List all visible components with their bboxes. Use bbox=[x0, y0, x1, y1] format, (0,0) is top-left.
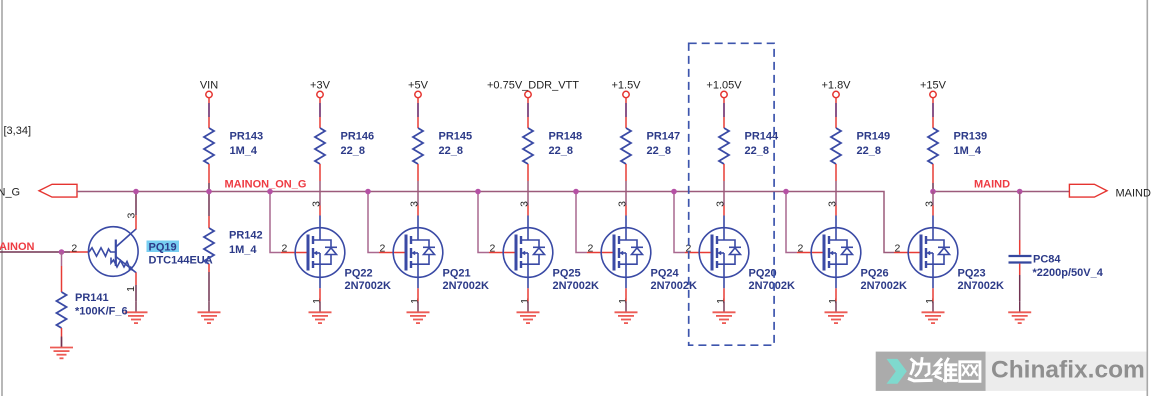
node MAINON / PR141 junction bbox=[59, 249, 65, 255]
svg-text:22_8: 22_8 bbox=[745, 145, 769, 157]
svg-text:PR147: PR147 bbox=[647, 130, 681, 142]
ground PC84 bbox=[1008, 301, 1031, 323]
svg-text:PR141: PR141 bbox=[75, 292, 109, 304]
power port +1.8V bbox=[821, 79, 851, 128]
svg-text:1: 1 bbox=[715, 298, 727, 304]
wire MAIND net bbox=[933, 191, 1069, 193]
svg-text:3: 3 bbox=[519, 201, 531, 207]
svg-text:1: 1 bbox=[409, 298, 421, 304]
svg-text:PQ22: PQ22 bbox=[345, 268, 373, 280]
svg-text:MAIND: MAIND bbox=[1116, 187, 1152, 199]
svg-text:2: 2 bbox=[282, 242, 288, 254]
node PQ19 collector / rail bbox=[133, 189, 139, 195]
svg-text:PQ23: PQ23 bbox=[958, 268, 986, 280]
resistor PR141 *100K/F_6 bbox=[61, 252, 63, 266]
ground PR141 bbox=[50, 337, 73, 359]
wire PQ23 source bbox=[932, 288, 934, 301]
capacitor PC84 *2200p/50V_4 bbox=[1009, 192, 1104, 302]
svg-text:*100K/F_6: *100K/F_6 bbox=[75, 306, 128, 318]
wire PR143 to rail bbox=[208, 164, 210, 192]
svg-text:PR148: PR148 bbox=[549, 130, 583, 142]
wire PQ24 source bbox=[625, 288, 627, 301]
transistor PQ19 DTC144EUA bbox=[89, 227, 139, 277]
svg-text:PQ21: PQ21 bbox=[443, 268, 471, 280]
svg-text:VIN: VIN bbox=[200, 79, 218, 91]
ground PQ19 emitter bbox=[125, 301, 148, 323]
svg-text:PR143: PR143 bbox=[230, 130, 264, 142]
wire PQ21 gate feed bbox=[368, 192, 406, 253]
selection box (dashed) around +1.05V / PQ20 column bbox=[689, 43, 774, 345]
wire PR146 to PQ22 drain (crosses rail) bbox=[319, 164, 321, 216]
svg-text:PR145: PR145 bbox=[439, 130, 473, 142]
power port +15V bbox=[920, 79, 947, 128]
svg-text:2: 2 bbox=[490, 242, 496, 254]
resistor PR145 22_8 bbox=[413, 128, 472, 164]
resistor PR146 22_8 bbox=[315, 128, 374, 164]
ground PQ22 source bbox=[309, 301, 332, 323]
svg-text:PR149: PR149 bbox=[857, 130, 891, 142]
wire PR149 to PQ26 drain (crosses rail) bbox=[835, 164, 837, 216]
node rail / PQ26 gate drop bbox=[783, 189, 789, 195]
svg-text:1: 1 bbox=[125, 286, 137, 292]
svg-text:1M_4: 1M_4 bbox=[954, 145, 982, 157]
transistor PQ23 2N7002K bbox=[895, 201, 1005, 304]
svg-text:2: 2 bbox=[380, 242, 386, 254]
wire PQ22 gate feed bbox=[270, 192, 308, 253]
svg-text:2N7002K: 2N7002K bbox=[958, 280, 1005, 292]
resistor PR147 22_8 bbox=[621, 128, 680, 164]
svg-text:1M_4: 1M_4 bbox=[229, 244, 257, 256]
svg-text:1: 1 bbox=[519, 298, 531, 304]
node MAIND / PR139 / PQ23 drain bbox=[930, 189, 936, 195]
svg-text:3: 3 bbox=[409, 201, 421, 207]
wire PQ26 gate feed bbox=[786, 192, 824, 253]
wire PR139 to MAIND bbox=[932, 164, 934, 192]
svg-text:+1.8V: +1.8V bbox=[821, 79, 851, 91]
svg-text:+15V: +15V bbox=[920, 79, 947, 91]
wire PR148 to PQ25 drain (crosses rail) bbox=[527, 164, 529, 216]
svg-text:Chinafix.com: Chinafix.com bbox=[991, 357, 1145, 384]
ground PQ23 source bbox=[922, 301, 945, 323]
wire PR145 to PQ21 drain (crosses rail) bbox=[417, 164, 419, 216]
svg-text:2N7002K: 2N7002K bbox=[345, 280, 392, 292]
wire PQ20 source bbox=[723, 288, 725, 301]
wire PQ19 collector bbox=[135, 192, 137, 216]
svg-text:1M_4: 1M_4 bbox=[230, 145, 258, 157]
node rail / PQ22 gate drop bbox=[267, 189, 273, 195]
watermark xunwei / Chinafix.com bbox=[876, 352, 1147, 391]
svg-text:3: 3 bbox=[924, 201, 936, 207]
power port +5V bbox=[408, 79, 429, 128]
svg-text:+1.05V: +1.05V bbox=[706, 79, 742, 91]
svg-text:2: 2 bbox=[71, 242, 77, 254]
wire PQ23 drain bbox=[932, 192, 934, 216]
svg-text:+0.75V_DDR_VTT: +0.75V_DDR_VTT bbox=[487, 79, 579, 91]
node rail / PQ25 gate drop bbox=[475, 189, 481, 195]
svg-text:22_8: 22_8 bbox=[549, 145, 573, 157]
svg-text:3: 3 bbox=[311, 201, 323, 207]
wire PR144 to PQ20 drain (crosses rail) bbox=[723, 164, 725, 216]
power port +3V bbox=[310, 79, 331, 128]
wire PQ23 gate feed bbox=[894, 252, 921, 254]
ground PQ21 source bbox=[407, 301, 430, 323]
node MAIND / PC84 bbox=[1017, 189, 1023, 195]
svg-text:2N7002K: 2N7002K bbox=[749, 280, 796, 292]
off-page connector MAIND arrow bbox=[1069, 184, 1107, 197]
svg-text:+1.5V: +1.5V bbox=[611, 79, 641, 91]
svg-text:N_G: N_G bbox=[0, 187, 20, 199]
svg-text:PQ19: PQ19 bbox=[149, 242, 177, 254]
svg-text:PQ26: PQ26 bbox=[861, 268, 889, 280]
svg-text:*2200p/50V_4: *2200p/50V_4 bbox=[1033, 267, 1104, 279]
transistor PQ21 2N7002K bbox=[380, 201, 490, 304]
node rail / PQ20 gate drop bbox=[671, 189, 677, 195]
transistor PQ24 2N7002K bbox=[588, 201, 698, 304]
svg-text:PC84: PC84 bbox=[1033, 254, 1061, 266]
resistor PR149 22_8 bbox=[831, 128, 890, 164]
svg-text:2N7002K: 2N7002K bbox=[861, 280, 908, 292]
resistor PR142 1M_4 bbox=[208, 192, 210, 217]
transistor PQ22 2N7002K bbox=[282, 201, 392, 304]
svg-text:22_8: 22_8 bbox=[857, 145, 881, 157]
wire MAINON_ON_G rail bbox=[77, 192, 894, 253]
power port +1.5V bbox=[611, 79, 641, 128]
wire PQ25 gate feed bbox=[478, 192, 516, 253]
svg-text:MAIND: MAIND bbox=[974, 179, 1010, 191]
resistor PR139 1M_4 bbox=[928, 128, 987, 164]
resistor PR148 22_8 bbox=[523, 128, 582, 164]
svg-text:2N7002K: 2N7002K bbox=[443, 280, 490, 292]
transistor PQ25 2N7002K bbox=[490, 201, 600, 304]
svg-text:3: 3 bbox=[827, 201, 839, 207]
svg-text:22_8: 22_8 bbox=[439, 145, 463, 157]
ground PQ25 source bbox=[517, 301, 540, 323]
svg-text:PR146: PR146 bbox=[341, 130, 375, 142]
power port +1.05V bbox=[706, 79, 742, 128]
svg-text:PR142: PR142 bbox=[229, 230, 263, 242]
ground PQ20 source bbox=[713, 301, 736, 323]
wire PQ19 emitter bbox=[135, 273, 137, 286]
node rail / PQ21 gate drop bbox=[365, 189, 371, 195]
transistor PQ20 2N7002K bbox=[686, 201, 796, 304]
ground PR142 bbox=[198, 301, 221, 323]
wire PQ20 gate feed bbox=[674, 192, 712, 253]
wire PQ26 source bbox=[835, 288, 837, 301]
svg-text:AINON: AINON bbox=[0, 241, 35, 253]
svg-text:1: 1 bbox=[924, 298, 936, 304]
svg-text:PQ25: PQ25 bbox=[553, 268, 581, 280]
svg-text:22_8: 22_8 bbox=[341, 145, 365, 157]
svg-text:PQ20: PQ20 bbox=[749, 268, 777, 280]
node rail / PQ24 gate drop bbox=[573, 189, 579, 195]
transistor PQ26 2N7002K bbox=[798, 201, 908, 304]
svg-text:22_8: 22_8 bbox=[647, 145, 671, 157]
wire MAINON bbox=[0, 251, 70, 253]
svg-text:1: 1 bbox=[827, 298, 839, 304]
node rail / PR143 bbox=[206, 189, 212, 195]
wire PQ22 source bbox=[319, 288, 321, 301]
ground PQ26 source bbox=[825, 301, 848, 323]
svg-text:2N7002K: 2N7002K bbox=[651, 280, 698, 292]
svg-text:MAINON_ON_G: MAINON_ON_G bbox=[225, 179, 307, 191]
wire PQ24 gate feed bbox=[576, 192, 614, 253]
svg-text:1: 1 bbox=[311, 298, 323, 304]
svg-text:3: 3 bbox=[715, 201, 727, 207]
resistor PR144 22_8 bbox=[719, 128, 779, 164]
svg-text:PQ24: PQ24 bbox=[651, 268, 680, 280]
svg-text:3: 3 bbox=[617, 201, 629, 207]
resistor PR143 1M_4 bbox=[204, 128, 263, 164]
power port +0.75V_DDR_VTT bbox=[487, 79, 579, 128]
wire PQ25 source bbox=[527, 288, 529, 301]
svg-text:2N7002K: 2N7002K bbox=[553, 280, 600, 292]
svg-text:2: 2 bbox=[798, 242, 804, 254]
wire PQ21 source bbox=[417, 288, 419, 301]
svg-text:PR139: PR139 bbox=[954, 130, 988, 142]
wire PR147 to PQ24 drain (crosses rail) bbox=[625, 164, 627, 216]
svg-text:+5V: +5V bbox=[408, 79, 429, 91]
svg-text:1: 1 bbox=[617, 298, 629, 304]
svg-text:[3,34]: [3,34] bbox=[4, 125, 32, 137]
svg-text:+3V: +3V bbox=[310, 79, 331, 91]
off-page connector MAINON_G arrow bbox=[39, 184, 77, 197]
svg-text:2: 2 bbox=[588, 242, 594, 254]
ground PQ24 source bbox=[615, 301, 638, 323]
power port VIN bbox=[200, 79, 218, 128]
svg-text:2: 2 bbox=[895, 242, 901, 254]
